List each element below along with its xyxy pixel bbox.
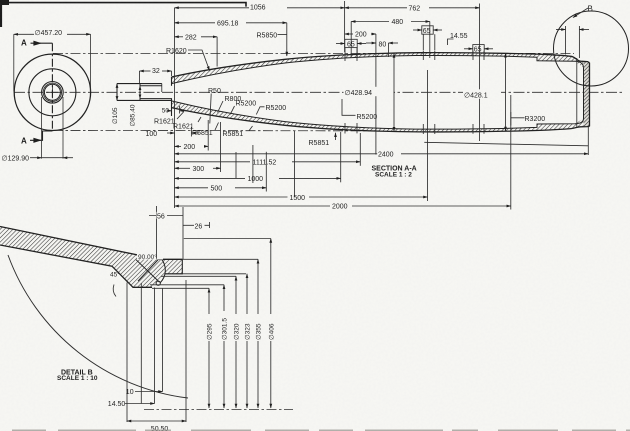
R5200 mid leader — [342, 99, 356, 115]
R50 leader — [210, 94, 211, 124]
fillet circle — [156, 281, 160, 285]
90 degree arc — [160, 259, 165, 284]
dim Ø129.90 — [41, 97, 43, 159]
groove G2 — [423, 51, 435, 135]
left verticals — [126, 283, 128, 423]
ext 480 right — [429, 22, 431, 59]
dim 80 — [366, 42, 376, 44]
center cross — [47, 87, 59, 99]
bottom tangent datum dash-dot — [53, 129, 400, 132]
dim Ø457.20 — [13, 34, 15, 91]
ext nose datum long — [174, 8, 176, 208]
R800 leader — [218, 101, 224, 113]
ext 695 right + R5850 leader — [278, 34, 287, 36]
groove X line 1 — [136, 260, 159, 282]
nose front face top — [171, 77, 173, 86]
fuze stub outer cap — [117, 84, 172, 101]
dim 32 — [139, 71, 141, 83]
dim 14.50 — [125, 403, 155, 405]
band2 right edge — [165, 259, 183, 274]
groove G3 — [473, 51, 484, 134]
dim 282 — [175, 36, 184, 38]
bottom wall hatch — [172, 101, 576, 132]
section line A-A vertical — [51, 43, 53, 131]
axis centerline — [14, 91, 624, 93]
dim 1111.52 — [175, 161, 251, 163]
leader B — [573, 8, 588, 18]
ext 80 / 200 — [375, 34, 377, 155]
Ø428.1 arrows — [505, 53, 507, 131]
groove X line 2 — [138, 256, 162, 282]
dim 300 — [175, 167, 191, 169]
dim 1000 — [175, 177, 246, 179]
R1621 #1 leader — [177, 112, 184, 119]
ext 14.55 — [565, 26, 567, 55]
detail axis dash-dot — [144, 408, 293, 410]
R5851 #1 leader — [215, 123, 219, 131]
scan artifact: top edge line — [0, 3, 246, 7]
wedge outline top — [0, 227, 182, 260]
dim 200 top — [345, 33, 353, 35]
dim 762 — [345, 7, 407, 9]
ladder horizontals — [182, 258, 258, 260]
dim Ø105 — [116, 84, 118, 101]
ext 762 right / G3 — [479, 4, 481, 142]
scan artifact: left corner — [0, 0, 2, 27]
dims 56/26 — [125, 206, 271, 422]
inner wall bottom — [172, 101, 584, 129]
R5200 #1 leader — [230, 106, 234, 114]
R1621 #2 leader — [198, 117, 201, 122]
inner wall top — [172, 55, 584, 83]
45 deg arc leader — [113, 285, 116, 297]
ladder verticals to axis — [208, 288, 210, 408]
top wall hatch — [172, 53, 576, 84]
rotated diameter labels — [206, 311, 276, 341]
stub bore lines — [140, 86, 172, 99]
R3200 leader — [511, 112, 525, 126]
dim 50 — [179, 106, 181, 114]
base face — [589, 63, 591, 127]
dim Ø85.40 — [139, 86, 141, 99]
outer profile bottom — [172, 108, 590, 132]
ext 282 right — [216, 37, 218, 67]
leader 14.55 bracket — [448, 39, 454, 45]
wedge outline bottom — [0, 245, 152, 287]
section arrow A bottom — [30, 131, 52, 140]
65 boxes — [336, 26, 493, 57]
base wall hatch — [584, 62, 590, 127]
circle bore — [44, 84, 60, 100]
dim 2400 — [175, 153, 378, 155]
detail circle B — [554, 11, 629, 86]
ext 480 left — [350, 22, 352, 58]
nose front face bottom — [171, 99, 173, 116]
dim 500 — [175, 187, 209, 189]
circle 2 — [29, 69, 76, 116]
R5200 #2 leader — [256, 107, 264, 115]
dim 695.18 — [175, 22, 216, 24]
ext 1056/762 right — [344, 1, 346, 52]
bore step — [161, 84, 163, 92]
leader R1620 — [188, 50, 210, 71]
circle Ø129.90 — [42, 82, 64, 104]
R5851 #2 leader — [249, 126, 253, 131]
stub joint — [139, 84, 141, 101]
dim 1056 — [175, 7, 250, 9]
dim 1500 — [175, 196, 288, 198]
dim 200 — [175, 145, 182, 147]
dim 100 — [167, 132, 175, 134]
top tangent datum dash-dot — [53, 52, 574, 54]
circle ring — [43, 83, 61, 101]
R5851 #3 leader — [335, 133, 337, 140]
boundary arc — [8, 255, 188, 398]
dim 10 — [135, 391, 163, 393]
section arrow A top — [31, 42, 53, 44]
wedge hatch — [0, 227, 182, 288]
groove G1 — [345, 48, 357, 134]
outer circle — [14, 54, 90, 130]
outer profile top — [172, 53, 590, 77]
Ø428.94 arrows — [393, 54, 395, 132]
dim 2000 — [175, 205, 331, 207]
dim 50.50 — [127, 420, 186, 422]
dim 480 — [351, 21, 389, 23]
